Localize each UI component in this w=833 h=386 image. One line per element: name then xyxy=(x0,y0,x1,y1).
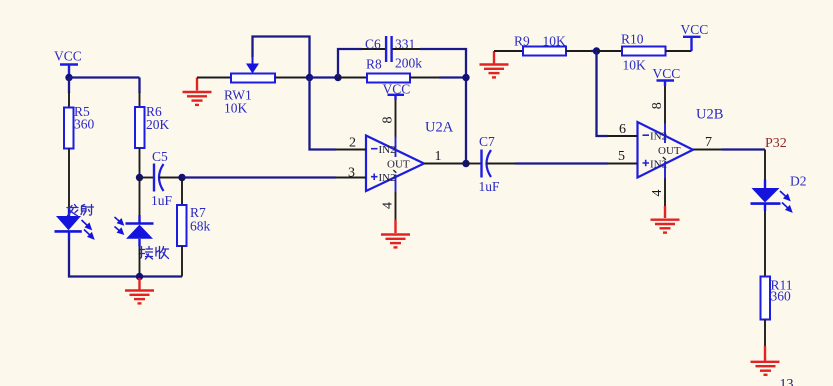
svg-text:3: 3 xyxy=(348,166,355,181)
ground G5 (U2B pin4) xyxy=(651,206,680,233)
svg-text:360: 360 xyxy=(771,289,792,304)
svg-text:1uF: 1uF xyxy=(151,193,173,208)
svg-text:2: 2 xyxy=(349,136,356,151)
svg-text:8: 8 xyxy=(381,117,396,124)
node RW1 junction xyxy=(306,74,313,81)
wire to U2A pin3 xyxy=(182,176,336,178)
capacitor C6 xyxy=(365,36,415,62)
svg-text:68k: 68k xyxy=(190,219,211,234)
pin RW1.2 xyxy=(275,77,310,79)
pin R10.1 xyxy=(597,50,623,52)
svg-text:5: 5 xyxy=(618,149,625,164)
power VCC (U2B pin8) xyxy=(653,66,681,86)
node R6/C5/D junction xyxy=(136,174,143,181)
ground G3 (U2A pin4) xyxy=(381,220,410,248)
pin C7.1 xyxy=(466,163,481,165)
node output junction xyxy=(462,160,469,167)
node C5/R7/pin3 junction xyxy=(178,174,185,181)
svg-text:R9: R9 xyxy=(514,34,530,49)
wire to U2B pin6 xyxy=(597,51,609,136)
pin R9.1 xyxy=(494,50,523,52)
svg-text:C5: C5 xyxy=(152,149,168,164)
op-amp U2B xyxy=(638,107,724,178)
pin C6.2 xyxy=(393,48,422,50)
svg-text:1: 1 xyxy=(435,149,442,164)
node R8/feedback junction xyxy=(462,74,469,81)
D2 light arrows xyxy=(780,191,791,212)
pin C5.2 xyxy=(159,177,182,179)
LED D-emit (发射) xyxy=(55,208,82,240)
wire up to C6 xyxy=(338,49,362,78)
pin R5.1 xyxy=(68,92,70,108)
resistor R11 xyxy=(761,277,793,320)
wire xyxy=(310,76,339,78)
label 接收 (receive) xyxy=(139,247,169,260)
svg-text:D2: D2 xyxy=(790,174,807,189)
pin U2A.1 xyxy=(424,163,463,165)
svg-text:7: 7 xyxy=(705,135,712,150)
svg-text:U2B: U2B xyxy=(696,107,723,123)
svg-text:IN2: IN2 xyxy=(379,172,396,184)
op-amp U2A xyxy=(366,120,454,192)
svg-text:R8: R8 xyxy=(366,57,382,72)
svg-text:C6: C6 xyxy=(365,37,381,52)
wire to U2B pin5 xyxy=(515,162,608,164)
potentiometer RW1 xyxy=(224,56,275,116)
pin R6.2 xyxy=(139,148,141,178)
capacitor C7 xyxy=(479,134,501,194)
svg-text:VCC: VCC xyxy=(681,22,709,37)
pin R11.1 xyxy=(764,211,766,277)
wire xyxy=(69,76,140,78)
wire feedback to U2A pin2 xyxy=(310,78,337,150)
pin U2A.4 xyxy=(395,175,397,193)
svg-text:200k: 200k xyxy=(395,56,422,71)
wire xyxy=(138,78,140,94)
svg-text:6: 6 xyxy=(619,122,626,137)
resistor R10 xyxy=(621,32,666,73)
svg-text:VCC: VCC xyxy=(653,66,681,81)
node C6 branch junction xyxy=(334,74,341,81)
ground G4 (R9 left) xyxy=(480,51,509,77)
pin R7.1 xyxy=(181,178,183,206)
wire to P32 xyxy=(722,148,765,150)
svg-text:1uF: 1uF xyxy=(479,179,501,194)
svg-text:VCC: VCC xyxy=(54,49,82,64)
wire xyxy=(591,50,597,52)
svg-text:10K: 10K xyxy=(623,58,647,73)
wire down to D2 xyxy=(764,150,766,181)
wire xyxy=(69,240,140,277)
pin R11.2 xyxy=(764,320,766,347)
svg-text:4: 4 xyxy=(650,190,665,197)
svg-text:20K: 20K xyxy=(146,117,170,132)
power VCC (top right) xyxy=(681,22,709,51)
power VCC (top left) xyxy=(54,49,82,78)
pin C5.1 xyxy=(140,177,154,179)
ground G6 (R11) xyxy=(751,346,780,375)
emitted-light arrows xyxy=(82,220,94,239)
node ground junction xyxy=(136,273,143,280)
pin R6.1 xyxy=(139,92,141,107)
resistor R8 xyxy=(366,56,422,83)
photodiode D-recv (接收) xyxy=(126,215,154,247)
pin R5.2 xyxy=(68,149,70,209)
svg-text:IN2: IN2 xyxy=(379,144,396,156)
svg-text:C7: C7 xyxy=(479,134,495,149)
pin U2B.8 xyxy=(664,86,666,124)
svg-text:OUT: OUT xyxy=(658,145,681,157)
pin C7.2 xyxy=(486,163,516,165)
pin R9.2 xyxy=(566,50,593,52)
pin U2A.8 xyxy=(395,100,397,138)
pin photodiode cathode-top xyxy=(139,178,141,216)
wire RW1 wiper loop xyxy=(253,37,310,78)
wire xyxy=(420,49,466,164)
svg-text:U2A: U2A xyxy=(425,120,454,136)
svg-text:10K: 10K xyxy=(543,34,567,49)
pin RW1.1 xyxy=(197,77,231,79)
svg-text:P32: P32 xyxy=(765,136,787,151)
pin U2B.6 xyxy=(608,135,638,137)
power VCC (U2A pin8) xyxy=(383,82,411,101)
svg-text:4: 4 xyxy=(381,202,396,209)
received-light arrows xyxy=(115,217,124,234)
pin U2B.4 xyxy=(664,162,666,180)
svg-text:10K: 10K xyxy=(224,101,248,116)
resistor R7 xyxy=(177,205,211,246)
pin R10.2 xyxy=(666,50,692,52)
LED D2 xyxy=(751,174,807,212)
node R9/R10 junction xyxy=(593,47,600,54)
svg-text:R10: R10 xyxy=(621,32,644,47)
pin U2B.7 xyxy=(693,149,723,151)
ground G1 xyxy=(125,278,154,303)
svg-text:13: 13 xyxy=(780,377,794,386)
capacitor C5 xyxy=(151,149,173,208)
pin U2A.3 xyxy=(336,177,366,179)
svg-text:360: 360 xyxy=(74,117,95,132)
pin R8.2 xyxy=(410,77,440,79)
pin U2B.5 xyxy=(608,163,638,165)
resistor R9 xyxy=(514,34,566,56)
wire xyxy=(68,78,70,94)
resistor R6 xyxy=(135,104,170,148)
pin U2A.2 xyxy=(336,149,366,151)
svg-text:OUT: OUT xyxy=(387,159,410,171)
pin photodiode anode-bottom xyxy=(139,247,141,277)
ground G2 (RW1 left) xyxy=(183,78,212,105)
pin C6.1 xyxy=(361,48,385,50)
node VCC junction xyxy=(65,74,72,81)
svg-text:IN2: IN2 xyxy=(650,131,667,143)
label 发射 (emit) xyxy=(67,205,94,216)
pin R8.1 xyxy=(338,77,367,79)
pin R7.2 xyxy=(181,246,183,277)
wire bottom xyxy=(140,275,183,277)
svg-text:8: 8 xyxy=(650,102,665,109)
resistor R5 xyxy=(64,104,95,149)
